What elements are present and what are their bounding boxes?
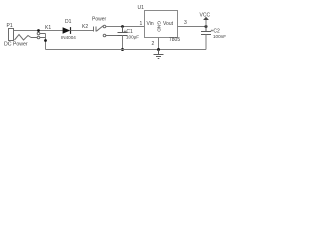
junction: jack sleeve node: [44, 39, 47, 42]
junction: C1 tap node: [121, 25, 124, 28]
svg-text:U1: U1: [138, 5, 145, 11]
svg-text:100nF: 100nF: [213, 34, 226, 39]
capacitor C1: [118, 27, 128, 36]
junction: ground node: [157, 48, 160, 51]
connector P1 barrel: [9, 29, 14, 41]
svg-text:GND: GND: [155, 21, 161, 32]
svg-text:3: 3: [184, 20, 187, 26]
wire: switch K2 to U1 pin 1: [106, 26, 145, 28]
switch K2: [94, 25, 118, 37]
ground rail: [46, 49, 207, 51]
connector P1 spring contact: [15, 35, 32, 41]
wire: diode cathode to switch K2: [71, 30, 94, 32]
wire: C2 to ground rail: [205, 35, 207, 50]
junction: jack switch tap: [37, 29, 40, 32]
capacitor C2: [201, 27, 211, 35]
svg-text:IN4004: IN4004: [61, 35, 76, 40]
svg-text:1: 1: [140, 21, 143, 27]
svg-text:100μF: 100μF: [126, 35, 139, 40]
diode D1: [63, 27, 71, 34]
svg-text:DC Power: DC Power: [4, 42, 28, 48]
svg-text:2: 2: [152, 41, 155, 47]
wire: U1 pin 3 to VCC node: [178, 26, 207, 28]
svg-text:7805: 7805: [169, 37, 180, 43]
wire: U1 pin 2 to ground rail: [158, 38, 160, 50]
wire: jack to diode anode: [14, 30, 63, 32]
wire: C1 to ground rail: [122, 36, 124, 50]
wire: jack pins to ground rail: [45, 34, 47, 50]
junction: C1 ground node: [121, 48, 124, 51]
svg-text:Power: Power: [92, 17, 107, 23]
IC U1 box: [145, 11, 178, 38]
junction: VCC node: [205, 25, 208, 28]
svg-text:D1: D1: [65, 19, 72, 25]
svg-text:P1: P1: [7, 23, 13, 29]
svg-text:Vin: Vin: [147, 21, 154, 27]
svg-text:K1: K1: [45, 25, 51, 31]
ground symbol: [154, 50, 164, 59]
power symbol VCC arrow: [203, 17, 209, 27]
connector P1 switch contact: [31, 31, 46, 39]
svg-text:K2: K2: [82, 24, 88, 30]
svg-text:VCC: VCC: [200, 13, 211, 19]
svg-text:Vout: Vout: [163, 21, 174, 27]
